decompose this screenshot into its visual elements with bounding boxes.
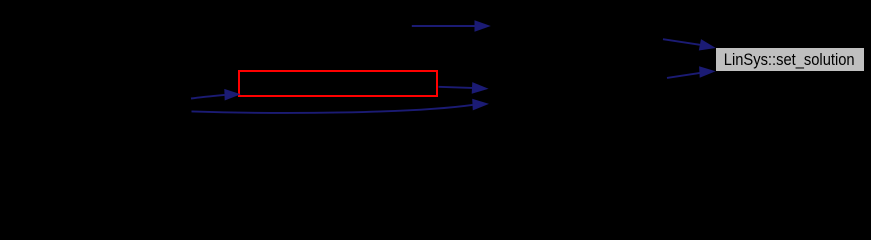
edge upper into LinSys::set_solution: [663, 39, 716, 50]
edge into red box (from left hidden node): [191, 89, 241, 101]
node: red truncated box: [239, 71, 437, 96]
svg-text:LinSys::set_solution: LinSys::set_solution: [724, 50, 855, 69]
edge lower into LinSys::set_solution: [667, 66, 716, 78]
edge long bottom curve (left hidden node to right hidden node): [192, 99, 490, 113]
edge top (between hidden nodes): [412, 20, 491, 32]
node LinSys::set_solution (current node, grey): [716, 48, 864, 71]
edge out of red box to right hidden node: [439, 82, 489, 94]
